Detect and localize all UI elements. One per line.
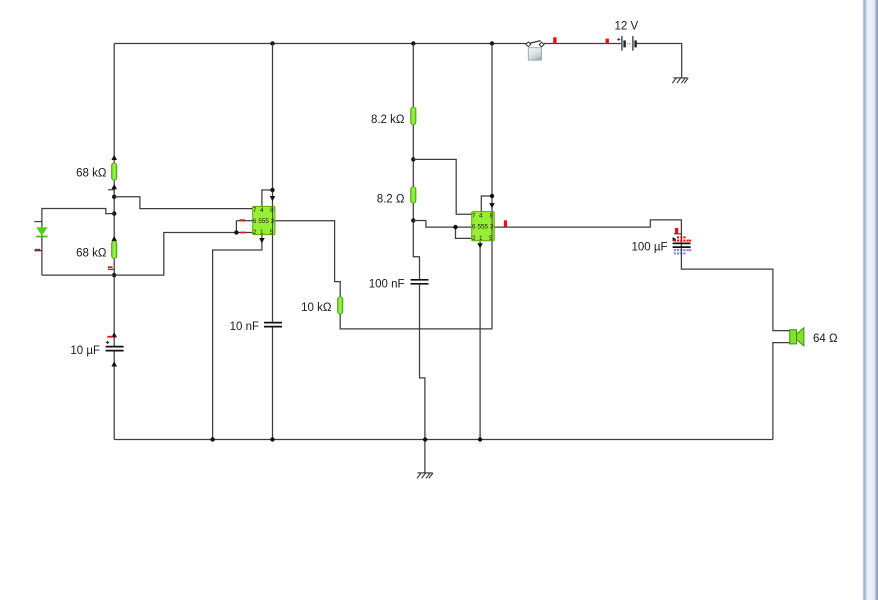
svg-text:12 V: 12 V — [614, 21, 638, 33]
capacitor C3 100 nF — [411, 280, 429, 284]
voltage marker red U1 pin2 — [240, 232, 246, 234]
node U2 pin8 net — [490, 194, 494, 198]
node x413 y220 — [411, 218, 415, 222]
svg-text:555: 555 — [258, 218, 269, 225]
svg-text:2: 2 — [253, 229, 257, 236]
svg-text:10 kΩ: 10 kΩ — [301, 302, 332, 314]
current arrow below U2 pin1 — [477, 243, 483, 248]
wire U2 pin1 to bottom rail — [479, 241, 481, 440]
wire U2 pins4+8 vertical — [481, 44, 492, 212]
capacitor C2 10 nF — [264, 323, 282, 327]
svg-text:10 nF: 10 nF — [230, 321, 259, 333]
current marker (red) before battery — [606, 39, 609, 44]
resistor R2 68 kOhm — [112, 241, 117, 258]
wire bottom rail — [114, 439, 773, 441]
switch S1 — [526, 41, 544, 61]
svg-text:4: 4 — [479, 212, 483, 219]
voltage tick LED top — [34, 221, 42, 223]
node bottom rail x425 — [423, 437, 427, 441]
wire U1 pins4+8 vertical — [262, 44, 273, 207]
svg-text:2: 2 — [472, 235, 476, 242]
node top rail x413 — [411, 41, 415, 45]
node x413 y159 — [411, 157, 415, 161]
wire U1 pin7 run — [114, 197, 253, 209]
node top rail x492 — [490, 41, 494, 45]
svg-text:4: 4 — [260, 207, 264, 214]
current marker (red) after switch — [553, 37, 556, 44]
charge dots blue below C4 plate — [674, 249, 691, 254]
node U1 pin2 junction — [234, 230, 238, 234]
svg-text:8.2 Ω: 8.2 Ω — [377, 193, 405, 205]
current arrow below R1 — [111, 184, 117, 189]
wire switch to battery — [544, 43, 621, 45]
svg-text:6: 6 — [472, 224, 476, 231]
node left x114 y214 — [112, 211, 116, 215]
voltage marker red U2 pin3 — [504, 220, 507, 226]
svg-text:5: 5 — [270, 229, 274, 236]
svg-text:1: 1 — [260, 229, 264, 236]
resistor R3 10 kOhm — [338, 297, 343, 314]
wire C3 bottom to rail and ground — [420, 285, 425, 473]
svg-text:6: 6 — [253, 218, 257, 225]
chip U1 555 — [253, 206, 275, 236]
voltage marker red above C1 — [107, 336, 112, 338]
wire U1 below chip to C2 — [272, 235, 274, 440]
current arrow above C1 — [111, 332, 117, 337]
svg-text:100 µF: 100 µF — [631, 242, 667, 254]
charge dots red above C4 plate — [673, 236, 692, 241]
svg-text:3: 3 — [271, 218, 275, 225]
resistor R5 8.2 Ohm — [411, 187, 416, 204]
node bottom rail x480 — [478, 437, 482, 441]
node left x114 y275 — [112, 273, 116, 277]
current arrow below U1 pin1 — [259, 238, 265, 243]
node bottom rail x213 — [210, 437, 214, 441]
capacitor C1 10 uF — [106, 347, 124, 351]
current arrow below C1 — [111, 361, 117, 366]
current arrow above R2 — [111, 236, 117, 241]
plus mark C1 — [106, 341, 109, 344]
node U1 pin8 net — [270, 188, 274, 192]
wire U1 pins2+6 run — [114, 221, 253, 275]
node U2 pin6 junction — [453, 225, 457, 229]
battery B1 12 V — [617, 36, 637, 51]
resistor R1 68 kOhm — [112, 163, 117, 180]
LED D1 loop bottom wire — [42, 274, 114, 276]
ground (top right) — [672, 44, 688, 83]
svg-text:8: 8 — [270, 207, 274, 214]
voltage tick above C4 — [674, 233, 682, 235]
wire left branch vertical — [113, 44, 115, 440]
svg-text:8: 8 — [489, 212, 493, 219]
svg-text:10 µF: 10 µF — [70, 345, 100, 357]
scrollbar — [863, 0, 878, 600]
ground (bottom) — [417, 473, 433, 478]
wire U2 pin3 to C4 — [494, 220, 681, 248]
node left x114 y197 — [112, 195, 116, 199]
svg-text:1: 1 — [479, 235, 483, 242]
LED D1 cathode-side wire — [41, 222, 43, 276]
resistor R4 8.2 kOhm — [411, 107, 416, 125]
svg-text:5: 5 — [489, 235, 493, 242]
svg-text:100 nF: 100 nF — [369, 278, 405, 290]
svg-text:64 Ω: 64 Ω — [813, 333, 838, 345]
speaker LS1 — [790, 328, 804, 346]
wire top rail left — [114, 43, 526, 45]
wire R3 bottom to U2 pin5 — [340, 241, 492, 329]
wire C4 to speaker — [681, 248, 789, 331]
wire U1 pin3 to R3 — [275, 221, 340, 297]
wire speaker bottom to rail — [773, 343, 790, 440]
wire battery to corner, down to ground — [637, 44, 682, 78]
svg-text:68 kΩ: 68 kΩ — [76, 248, 107, 260]
voltage marker red above C4 — [675, 228, 678, 233]
LED D1 — [36, 227, 47, 237]
capacitor C4 100 uF — [673, 243, 691, 247]
LED D1 loop top wire — [42, 209, 114, 222]
svg-text:555: 555 — [478, 224, 489, 231]
wire mid branch vertical x413 — [413, 44, 419, 280]
wire U1 pin1 to bottom rail — [213, 235, 262, 440]
voltage marker red U1 pin6 — [240, 219, 246, 221]
current arrow into U2 pin8 — [489, 203, 495, 208]
voltage marker red below R2 — [108, 266, 113, 268]
voltage marker red LED bottom — [35, 249, 40, 251]
voltage tick LED bottom — [34, 250, 42, 252]
voltage tick below R1 — [108, 189, 115, 191]
wire U2 pins2+6 run — [413, 221, 471, 239]
svg-text:3: 3 — [490, 224, 494, 231]
svg-text:68 kΩ: 68 kΩ — [76, 168, 107, 180]
node bottom rail x272 — [270, 437, 274, 441]
voltage tick below R2 — [108, 268, 115, 270]
svg-text:7: 7 — [472, 212, 476, 219]
wire U2 pin7 run — [413, 159, 471, 214]
current arrow above R1 — [111, 155, 117, 160]
svg-text:8.2 kΩ: 8.2 kΩ — [371, 114, 405, 126]
node top rail x272 — [270, 41, 274, 45]
svg-text:7: 7 — [253, 207, 257, 214]
chip U2 555 — [472, 212, 495, 242]
current arrow into U1 pin8 — [270, 196, 276, 201]
